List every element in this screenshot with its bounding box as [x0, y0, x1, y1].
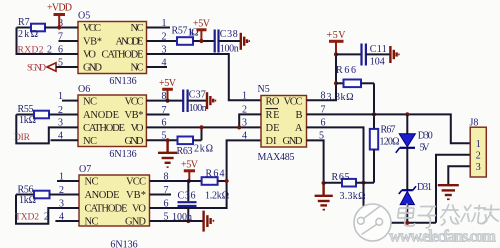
- svg-text:ANODE: ANODE: [83, 110, 119, 121]
- optocoupler O7: [79, 175, 150, 228]
- svg-text:SGND: SGND: [27, 63, 46, 73]
- svg-text:R65: R65: [332, 172, 350, 183]
- watermark logo: [354, 204, 391, 241]
- svg-text:1: 1: [476, 139, 481, 150]
- wire RE net: [239, 114, 261, 127]
- svg-text:104: 104: [370, 56, 385, 67]
- svg-text:5V: 5V: [420, 143, 431, 154]
- svg-text:VCC: VCC: [126, 177, 146, 188]
- svg-text:B: B: [295, 110, 302, 121]
- svg-text:GND: GND: [125, 217, 146, 228]
- svg-text:VCC: VCC: [125, 96, 144, 107]
- wire DIR net: [16, 115, 78, 144]
- port SGND: [47, 63, 78, 71]
- svg-text:GND: GND: [125, 136, 144, 147]
- svg-text:3.3kΩ: 3.3kΩ: [340, 191, 366, 202]
- junction D30/B: [405, 112, 409, 116]
- svg-text:NC: NC: [131, 23, 144, 34]
- svg-text:2: 2: [47, 44, 52, 55]
- svg-text:+5V: +5V: [159, 78, 177, 89]
- wire O6 pin7 stub: [146, 114, 169, 116]
- wire O7 pin7 stub: [150, 194, 172, 196]
- svg-text:6N136: 6N136: [109, 149, 136, 160]
- svg-text:D30: D30: [418, 130, 433, 141]
- pin numbers O5 left 8 7 6 5: [58, 18, 63, 69]
- power +5V at N5: [327, 30, 347, 54]
- svg-text:NC: NC: [85, 177, 99, 188]
- junction +5V/R57: [199, 39, 203, 43]
- svg-text:R67: R67: [381, 125, 396, 136]
- svg-text:NC: NC: [85, 217, 99, 228]
- svg-text:O7: O7: [79, 164, 91, 175]
- pin numbers O7 right 8 7 6 5: [164, 171, 169, 222]
- svg-text:C37: C37: [189, 89, 206, 100]
- resistor R64: [202, 177, 227, 185]
- svg-text:+5V: +5V: [193, 19, 211, 30]
- svg-text:A: A: [295, 123, 303, 134]
- wire O7 pin1 stub: [57, 180, 79, 182]
- svg-text:R66: R66: [336, 65, 356, 76]
- wire O7 GND: [150, 220, 204, 222]
- svg-text:O6: O6: [78, 84, 90, 95]
- resistor R7: [17, 24, 79, 32]
- svg-text:VB*: VB*: [126, 190, 146, 201]
- svg-text:ANODE: ANODE: [85, 190, 120, 201]
- svg-text:VCC: VCC: [83, 23, 101, 34]
- pin numbers O6 right 8 7 6 5: [162, 91, 167, 142]
- svg-text:R56: R56: [18, 185, 34, 196]
- wire R66 to B line: [373, 83, 375, 129]
- resistor R66: [336, 80, 374, 88]
- wire O5 pin7 stub: [59, 40, 79, 42]
- svg-text:MAX485: MAX485: [258, 152, 295, 163]
- svg-text:TXD2: TXD2: [15, 212, 39, 222]
- svg-text:VCC: VCC: [284, 96, 303, 107]
- junction A/bias: [361, 181, 365, 185]
- label RXD2 2: [18, 44, 53, 55]
- svg-text:6N136: 6N136: [109, 76, 136, 87]
- pin numbers O5 right 1 2 3 4: [162, 18, 167, 69]
- svg-text:1kΩ: 1kΩ: [19, 115, 36, 126]
- svg-text:120Ω: 120Ω: [380, 137, 400, 148]
- capacitor C37: [183, 90, 207, 113]
- wire O6 GND: [146, 139, 177, 141]
- junction +5V/C11: [334, 52, 338, 56]
- wire A net down: [307, 127, 364, 222]
- power +5V at O6: [159, 78, 177, 101]
- wire N5 GND down: [307, 140, 324, 183]
- svg-text:ANODE: ANODE: [116, 37, 144, 48]
- svg-text:DE: DE: [266, 123, 280, 134]
- svg-text:www.elecfans.com: www.elecfans.com: [389, 227, 496, 246]
- junction RE/DE: [237, 125, 241, 129]
- svg-text:C38: C38: [220, 29, 238, 40]
- zener D31: [399, 186, 416, 223]
- svg-text:C36: C36: [178, 191, 196, 202]
- svg-text:RE: RE: [266, 110, 280, 121]
- wire O6 pin4 stub: [51, 139, 79, 141]
- resistor R56: [16, 191, 79, 199]
- pin numbers N5 left 1 2 3 4: [242, 91, 247, 142]
- junction +5V O7: [187, 179, 191, 183]
- svg-text:VB*: VB*: [125, 110, 144, 121]
- ground at O6 pin5: [158, 140, 177, 168]
- capacitor C36: [178, 181, 197, 221]
- junction DI/R64: [225, 179, 229, 183]
- svg-text:R55: R55: [18, 104, 34, 115]
- svg-text:+VDD: +VDD: [47, 3, 72, 14]
- resistor R63: [178, 127, 202, 144]
- junction O6 gnd: [166, 138, 170, 142]
- pin numbers O6 left 1 2 3 4: [58, 91, 63, 142]
- ground after C37: [207, 92, 216, 109]
- svg-text:RXD2: RXD2: [18, 45, 44, 55]
- resistor R57: [147, 37, 215, 45]
- label TXD2 2: [15, 211, 49, 222]
- svg-text:J8: J8: [470, 118, 479, 129]
- power +5V at O7: [181, 160, 199, 182]
- svg-text:DIR: DIR: [14, 133, 31, 143]
- svg-text:R63: R63: [177, 146, 193, 157]
- svg-text:CATHODE: CATHODE: [102, 50, 144, 61]
- wire O5 pin4 stub: [147, 66, 168, 68]
- svg-text:3: 3: [242, 118, 247, 129]
- svg-text:RO: RO: [266, 96, 280, 107]
- ground after C38: [241, 33, 250, 50]
- wire A rail bottom: [364, 222, 437, 224]
- pin numbers N5 right 8 7 6 5: [319, 91, 326, 142]
- connector J8: [470, 127, 486, 177]
- svg-text:GND: GND: [283, 136, 303, 147]
- wire O7 pin4 stub: [55, 220, 79, 222]
- ground at J8 pin3: [438, 185, 459, 200]
- svg-text:100n: 100n: [189, 103, 207, 114]
- wire TXD2 net: [16, 195, 79, 224]
- junction +5V/R66: [334, 81, 338, 85]
- svg-text:NC: NC: [83, 96, 97, 107]
- wire N5 VCC to +5V: [307, 54, 337, 100]
- svg-text:CATHODE: CATHODE: [83, 123, 125, 134]
- svg-text:6N136: 6N136: [110, 240, 137, 248]
- svg-text:D31: D31: [417, 182, 432, 193]
- wire B net to J8 pin1: [307, 114, 471, 143]
- svg-text:N5: N5: [258, 84, 270, 95]
- svg-text:DI: DI: [266, 136, 278, 147]
- svg-text:VO: VO: [83, 50, 96, 61]
- svg-text:NC: NC: [131, 63, 144, 74]
- svg-text:1kΩ: 1kΩ: [19, 195, 36, 206]
- ground at N5 GND: [315, 183, 333, 211]
- svg-text:R57: R57: [172, 26, 188, 37]
- resistor R55: [16, 111, 78, 119]
- svg-text:2: 2: [476, 150, 481, 161]
- wire O7 VCC: [150, 180, 202, 182]
- resistor R67: [370, 129, 378, 150]
- svg-text:100n: 100n: [220, 44, 239, 55]
- wire O6 VCC: [146, 100, 183, 102]
- wire R67 bottom lead: [373, 150, 375, 183]
- optocoupler O5: [78, 22, 147, 74]
- svg-text:C11: C11: [370, 44, 387, 55]
- wire DE net: O6 VO to N5 DE: [146, 126, 261, 128]
- rotated ground after O7 GND: [204, 211, 215, 232]
- zener D30: [396, 114, 416, 152]
- svg-text:3.3kΩ: 3.3kΩ: [327, 92, 354, 103]
- junction N5 gnd: [322, 181, 326, 185]
- svg-text:3: 3: [476, 162, 481, 173]
- svg-text:2: 2: [44, 211, 49, 222]
- watermark characters: [397, 204, 500, 229]
- capacitor C11: [336, 44, 390, 66]
- svg-text:1.2kΩ: 1.2kΩ: [205, 190, 229, 201]
- wire D30 to D31: [406, 148, 408, 190]
- wire DI net: N5 DI to O7 VO: [150, 140, 262, 208]
- svg-text:1: 1: [242, 91, 247, 102]
- svg-text:2kΩ: 2kΩ: [18, 29, 38, 40]
- junction C36 bottom: [186, 219, 190, 223]
- svg-text:NC: NC: [83, 136, 97, 147]
- svg-text:VO: VO: [131, 123, 144, 134]
- wire O5 pin1 stub: [147, 27, 171, 29]
- svg-text:VB*: VB*: [83, 37, 102, 48]
- power +5V at O5: [193, 19, 211, 42]
- svg-text:O5: O5: [78, 11, 90, 22]
- junction +5V O6: [165, 99, 169, 103]
- wire RXD2 net: [17, 28, 79, 55]
- svg-text:+5V: +5V: [327, 30, 347, 41]
- junction R66/B: [372, 112, 376, 116]
- svg-text:2kΩ: 2kΩ: [194, 144, 213, 155]
- wire rail to J8 pin2: [436, 155, 470, 223]
- capacitor C38: [215, 30, 241, 53]
- wire J8 pin3 to ground: [448, 166, 470, 184]
- ground after C11: [390, 46, 399, 63]
- svg-text:+5V: +5V: [181, 160, 199, 171]
- junction at R7/+VDD: [57, 25, 61, 29]
- resistor R65 with bias wire: [324, 179, 374, 187]
- svg-text:VO: VO: [132, 204, 146, 215]
- svg-text:R7: R7: [18, 17, 30, 28]
- junction D31/rail: [405, 221, 409, 225]
- optocoupler O6: [78, 95, 146, 147]
- svg-text:GND: GND: [83, 63, 102, 74]
- wire RO net: O5 pin3 to N5 pin1: [147, 54, 262, 100]
- svg-text:4: 4: [242, 131, 247, 142]
- svg-text:R64: R64: [206, 168, 225, 179]
- junction R63/DE: [199, 125, 203, 129]
- power +VDD: [47, 3, 72, 28]
- pin numbers O7 left 1 2 3 4: [59, 171, 64, 222]
- wire O6 pin1 stub: [62, 100, 78, 102]
- IC N5 MAX485: [261, 96, 307, 148]
- svg-text:CATHODE: CATHODE: [85, 204, 128, 215]
